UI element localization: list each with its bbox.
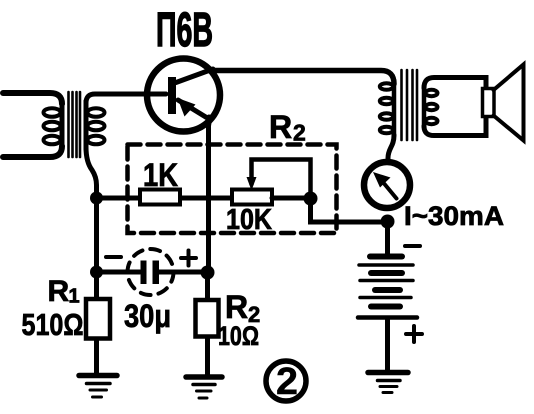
resistor R1 body xyxy=(86,299,110,339)
wire T2 secondary bottom to speaker xyxy=(424,117,486,136)
transistor Q1 circle xyxy=(147,59,220,132)
resistor R1 lead xyxy=(94,272,99,373)
battery GB1 bottom lead xyxy=(385,318,390,372)
capacitor C1 left lead xyxy=(97,270,141,275)
svg-text:10K: 10K xyxy=(226,204,272,236)
transistor Q1 emitter arrowhead xyxy=(178,98,196,117)
svg-text:10Ω: 10Ω xyxy=(218,321,259,351)
svg-text:R: R xyxy=(269,109,292,145)
svg-text:R: R xyxy=(48,275,70,308)
meter M1 circle xyxy=(364,162,410,208)
junction dot pot/wiper xyxy=(304,192,318,206)
transistor Q1 collector stroke xyxy=(176,69,213,83)
potentiometer wiper arrowhead xyxy=(247,177,257,191)
svg-text:1: 1 xyxy=(69,286,80,308)
wire node A down to capacitor xyxy=(94,198,99,272)
ground G3 xyxy=(368,373,408,393)
battery plus sign xyxy=(406,326,422,342)
transformer T1 primary winding xyxy=(44,101,63,149)
ground G2 xyxy=(186,377,222,398)
label R2 (dashed box) xyxy=(269,109,306,146)
transformer T2 core xyxy=(402,70,418,140)
wire input top xyxy=(3,93,62,104)
node A junction dot xyxy=(90,192,103,205)
label R1 xyxy=(48,275,80,308)
transformer T1 secondary winding xyxy=(86,101,105,149)
ground G1 xyxy=(79,376,117,398)
figure number circle 2 xyxy=(266,361,306,401)
svg-text:1K: 1K xyxy=(143,157,178,193)
svg-text:I~30mA: I~30mA xyxy=(404,201,504,231)
potentiometer wiper arm xyxy=(252,160,311,196)
resistor R2 lead xyxy=(205,272,210,376)
dashed box R2 network xyxy=(128,145,337,234)
transistor Q1 emitter stroke xyxy=(178,100,209,119)
battery GB1 plates xyxy=(358,257,417,318)
svg-text:510Ω: 510Ω xyxy=(22,307,84,342)
node capacitor left dot xyxy=(90,266,103,279)
wire emitter down xyxy=(206,117,212,272)
meter M1 needle xyxy=(382,181,397,199)
speaker LS1 driver xyxy=(483,89,495,117)
speaker LS1 cone xyxy=(494,65,524,141)
transformer T1 core xyxy=(69,92,81,157)
wire input bottom xyxy=(3,146,62,157)
battery GB1 top lead xyxy=(385,222,390,255)
node meter bottom dot xyxy=(381,215,395,229)
wire T1 secondary top to base xyxy=(86,94,166,103)
capacitor C1 right plate xyxy=(153,261,160,285)
wire node A to emitter net (through 1K) xyxy=(97,196,233,201)
battery minus sign xyxy=(405,244,420,248)
label R2 (resistor) xyxy=(225,289,260,327)
capacitor C1 left plate xyxy=(141,261,147,285)
svg-text:2: 2 xyxy=(276,361,298,403)
transistor Q1 base bar xyxy=(168,77,176,114)
svg-text:П6В: П6В xyxy=(156,4,213,57)
transformer T2 secondary winding xyxy=(424,86,438,127)
wire T2 primary bottom to meter xyxy=(388,135,394,162)
resistor R2 body xyxy=(196,300,219,337)
potentiometer 10K body xyxy=(232,190,272,205)
capacitor minus sign xyxy=(106,255,121,259)
wire pot right lead xyxy=(272,196,311,201)
svg-text:2: 2 xyxy=(293,120,306,146)
wire T1 secondary bottom to node A xyxy=(86,147,97,195)
node capacitor right dot xyxy=(201,266,215,280)
capacitor C1 dashed circle xyxy=(128,249,174,295)
transformer T2 primary winding xyxy=(380,80,394,136)
svg-text:R: R xyxy=(225,289,248,325)
wire junction to meter xyxy=(311,199,382,223)
meter M1 needle arrowhead xyxy=(373,172,391,188)
wire T2 secondary top to speaker xyxy=(424,78,486,89)
resistor 1K body xyxy=(140,190,180,205)
svg-text:30μ: 30μ xyxy=(124,298,171,334)
capacitor C1 right lead xyxy=(159,270,208,275)
capacitor plus sign xyxy=(181,251,196,266)
wire collector to T2 xyxy=(211,71,394,85)
